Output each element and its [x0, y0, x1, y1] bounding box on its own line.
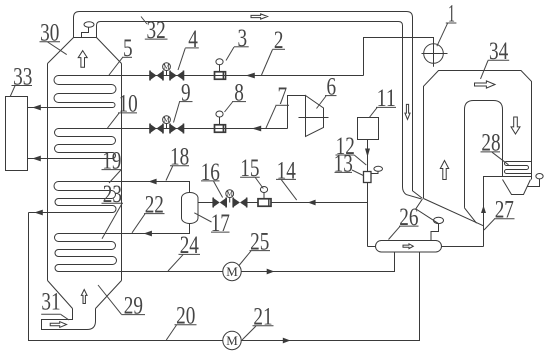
svg-text:17: 17	[211, 210, 230, 237]
svg-text:13: 13	[334, 150, 353, 177]
svg-text:11: 11	[377, 85, 396, 112]
svg-text:22: 22	[145, 192, 164, 219]
svg-text:M: M	[163, 115, 170, 124]
svg-text:M: M	[163, 62, 170, 71]
svg-text:26: 26	[399, 204, 418, 231]
svg-text:15: 15	[240, 155, 259, 182]
svg-text:33: 33	[13, 63, 32, 90]
svg-text:29: 29	[124, 293, 143, 320]
svg-text:32: 32	[147, 17, 166, 44]
svg-text:M: M	[226, 333, 238, 348]
svg-text:2: 2	[274, 27, 284, 54]
svg-text:28: 28	[481, 130, 500, 157]
svg-text:21: 21	[253, 304, 272, 331]
svg-text:6: 6	[327, 73, 337, 100]
svg-text:31: 31	[41, 289, 60, 316]
svg-text:4: 4	[188, 26, 198, 53]
svg-text:19: 19	[102, 148, 121, 175]
svg-text:5: 5	[123, 35, 133, 62]
svg-text:M: M	[226, 264, 238, 279]
svg-text:10: 10	[119, 91, 138, 118]
svg-text:16: 16	[201, 159, 220, 186]
svg-text:20: 20	[176, 303, 195, 330]
svg-text:M: M	[226, 189, 233, 198]
svg-text:8: 8	[234, 80, 244, 107]
svg-text:23: 23	[103, 181, 122, 208]
svg-text:14: 14	[277, 157, 297, 184]
svg-text:34: 34	[489, 38, 509, 65]
svg-text:30: 30	[40, 20, 59, 47]
svg-text:7: 7	[278, 83, 288, 110]
svg-text:27: 27	[495, 197, 514, 224]
svg-text:3: 3	[238, 25, 248, 52]
svg-text:25: 25	[250, 228, 269, 255]
svg-text:9: 9	[181, 80, 191, 107]
